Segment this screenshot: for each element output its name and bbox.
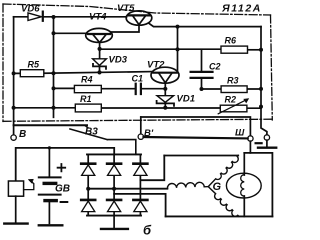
svg-text:R6: R6: [225, 36, 237, 46]
resistor R3: [221, 86, 247, 93]
battery GB: [48, 148, 50, 176]
wire VT5 collector / VT2 collector riser: [177, 27, 179, 72]
diode VD bottom 1: [81, 200, 95, 212]
zener VD3: [93, 59, 107, 69]
resistor R1: [75, 104, 101, 112]
diode VD top 3: [133, 164, 147, 176]
stator winding upper arm: [209, 155, 239, 186]
wire VD3 to R5 row: [99, 66, 101, 72]
svg-text:В: В: [19, 129, 26, 140]
wire generator bottom run: [166, 215, 273, 217]
diode VD bottom 3: [133, 200, 147, 212]
junction R2 / right rail: [259, 105, 263, 109]
wire row R3: [202, 88, 262, 90]
wire bus B' to Sh: [144, 137, 248, 138]
ground bar left: [4, 222, 27, 224]
svg-text:В': В': [144, 128, 154, 139]
wire phase A col3 riser: [140, 156, 164, 181]
svg-text:R1: R1: [80, 94, 92, 104]
diode VD bottom 2: [107, 200, 121, 212]
junction R1 / B rail: [12, 106, 16, 110]
svg-text:VD6: VD6: [21, 4, 40, 15]
node B left rail: [13, 17, 15, 135]
junction VD1 / R1 row: [163, 106, 167, 110]
wire top to VD6: [14, 16, 28, 18]
junction battery / lower rail: [48, 146, 51, 149]
svg-text:VD3: VD3: [109, 55, 128, 66]
capacitor C1: [136, 84, 141, 94]
svg-text:VD1: VD1: [177, 94, 195, 105]
svg-text:Я112А: Я112А: [221, 2, 262, 14]
junction VT4 emitter / y49 wire: [98, 47, 102, 51]
svg-text:R4: R4: [81, 75, 93, 85]
switch V3: [70, 129, 136, 154]
svg-text:R2: R2: [225, 94, 237, 104]
transistor VT2: [151, 67, 179, 83]
rectifier bridge rails: [87, 153, 141, 155]
junction phase B / column 1: [86, 187, 90, 191]
diode VD top 1: [81, 164, 95, 176]
junction R5 / B rail: [12, 71, 16, 75]
transistor VT5: [126, 11, 152, 25]
svg-text:VT2: VT2: [147, 60, 165, 71]
terminal B' stub: [140, 117, 142, 134]
node right rail: [261, 27, 267, 135]
svg-text:C1: C1: [132, 74, 144, 84]
svg-text:R3: R3: [227, 76, 239, 86]
wire row R5 / VT2 base: [14, 72, 152, 74]
terminal B circle: [11, 135, 16, 140]
junction R3 / right rail: [259, 87, 263, 91]
regulator frame (dash-dot border): [3, 4, 272, 122]
rotor circle: [226, 173, 261, 198]
resistor R2 (variable): [220, 105, 247, 112]
wire row R1/R2: [14, 107, 261, 109]
svg-text:C2: C2: [209, 62, 221, 72]
wire phase A top run: [164, 155, 238, 157]
minus sign: [61, 201, 68, 203]
wire VD6 to VT5 base: [44, 16, 127, 18]
svg-text:R5: R5: [28, 60, 40, 70]
diode VD6: [28, 12, 43, 21]
junction C1 / VD1 node: [163, 87, 167, 91]
wire generator right edge: [244, 153, 272, 217]
wire VT4 emitter down: [99, 43, 101, 59]
junction VD3 / R5 row: [97, 70, 101, 74]
junction phase B / column 2: [112, 187, 116, 191]
svg-text:VT5: VT5: [117, 3, 135, 14]
junction R5 row / cathode rail: [52, 71, 56, 75]
wire VT5 right to right rail: [149, 23, 261, 26]
wire VT4 base: [54, 32, 87, 34]
junction R4 tap: [52, 86, 56, 90]
transistor VT4: [86, 28, 113, 42]
rotor field winding wire: [243, 153, 245, 217]
diode VD top 2: [107, 164, 121, 176]
svg-text:Ш: Ш: [235, 128, 245, 139]
resistor R6: [221, 46, 248, 53]
wire VT2 emitter down: [164, 83, 166, 96]
rotor winding arcs: [241, 175, 245, 197]
ground terminal circle: [264, 135, 269, 140]
svg-text:G: G: [213, 181, 222, 193]
bridge column 2: [113, 154, 115, 215]
rheostat load: [8, 181, 23, 196]
bridge column 1: [87, 154, 89, 215]
wire row R4/C1: [54, 87, 166, 89]
zener VD1: [157, 96, 174, 106]
node regulator bottom rail: [141, 117, 251, 136]
terminal Sh circle: [248, 136, 253, 141]
junction C2 / R3 row: [200, 87, 204, 91]
svg-text:б: б: [143, 223, 152, 238]
wire phase C col2 riser: [114, 194, 166, 217]
ground: [266, 140, 268, 146]
junction VD6 cathode / top wire: [52, 15, 56, 19]
resistor R4: [74, 85, 101, 92]
bridge column 3: [139, 154, 141, 215]
bridge center ground drop: [113, 216, 115, 229]
svg-text:VT4: VT4: [89, 12, 107, 23]
junction VT2 collector / y49 wire: [176, 47, 180, 51]
junction R1 row / cathode rail: [52, 106, 56, 110]
wire VT5 emitter to VT4 base: [111, 25, 139, 32]
junction R6 / right rail: [259, 48, 263, 52]
resistor R5: [20, 70, 44, 77]
stator winding middle coil: [167, 182, 208, 188]
svg-text:GB: GB: [55, 184, 70, 195]
stator winding lower arm: [209, 187, 239, 216]
svg-text:В3: В3: [85, 127, 98, 138]
wire Sh terminal drop to rotor: [249, 141, 251, 153]
node VD6 cathode rail: [53, 17, 55, 118]
wire phase B col1: [88, 188, 167, 190]
wire lower left rail: [16, 148, 115, 181]
junction VT2 collector / top rail: [176, 25, 180, 29]
junction VT4 base tap: [52, 31, 56, 35]
wire bus B to switch: [14, 124, 87, 126]
wire row y=49 to right rail: [100, 48, 221, 50]
capacitor C2: [201, 50, 203, 71]
plus sign: [58, 164, 66, 171]
